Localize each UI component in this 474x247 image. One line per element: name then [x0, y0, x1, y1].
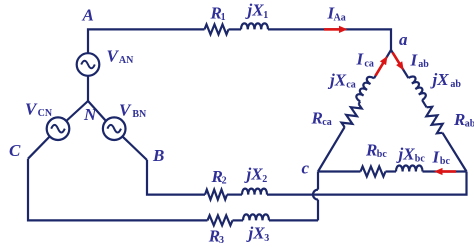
svg-text:BN: BN	[132, 109, 147, 120]
label I_ca	[356, 49, 374, 69]
source V_BN	[103, 117, 126, 140]
svg-text:A: A	[82, 6, 94, 25]
svg-text:1: 1	[221, 12, 226, 23]
wire a to jX_ab	[391, 50, 408, 78]
svg-text:V: V	[25, 100, 38, 119]
svg-text:ab: ab	[418, 59, 429, 70]
svg-text:jX: jX	[246, 224, 266, 243]
svg-text:CN: CN	[38, 108, 53, 119]
label R_bc	[365, 141, 387, 160]
wire jX2 to node b	[267, 172, 467, 195]
svg-text:jX: jX	[430, 70, 450, 89]
svg-text:ca: ca	[346, 79, 355, 90]
label jX3	[246, 224, 270, 244]
label R2	[211, 167, 227, 187]
current arrow I_ca	[376, 56, 388, 76]
svg-text:a: a	[399, 30, 408, 49]
wire jX_ca to R_ca	[359, 101, 361, 104]
svg-text:R: R	[311, 109, 323, 128]
label jX2	[244, 165, 268, 186]
wire R2 to jX2	[227, 194, 242, 196]
svg-text:c: c	[302, 159, 310, 178]
wire jX1 to node a corner	[268, 29, 391, 50]
svg-text:C: C	[9, 141, 21, 160]
hop over B wire	[313, 190, 318, 200]
label B	[152, 146, 164, 165]
svg-text:V: V	[119, 101, 132, 120]
wire c down to hop	[317, 172, 319, 190]
label a	[399, 30, 408, 49]
wire V_CN to corner C	[28, 136, 50, 158]
inductor jX_bc	[396, 166, 423, 172]
label R1	[210, 3, 226, 23]
label V_CN	[25, 100, 53, 120]
wire jX3 to c branch corner	[269, 219, 318, 221]
svg-text:R: R	[453, 110, 465, 129]
wire corner C down and to R3	[28, 159, 208, 221]
svg-text:3: 3	[264, 233, 269, 244]
inductor jX2	[242, 189, 267, 195]
label jX_ca	[327, 70, 356, 90]
wire V_BN to corner B	[122, 136, 147, 160]
svg-text:ca: ca	[322, 117, 331, 128]
svg-text:bc: bc	[440, 156, 451, 167]
wire R_ca to c	[318, 127, 345, 171]
label jX_ab	[430, 70, 462, 90]
current arrow I_ab	[393, 53, 404, 71]
resistor R_bc	[361, 167, 386, 177]
svg-text:1: 1	[263, 10, 268, 21]
label R3	[208, 226, 224, 246]
wire jX_ab to R_ab	[422, 100, 427, 107]
label C	[9, 141, 21, 160]
current arrow I_Aa	[324, 26, 348, 33]
inductor jX_ab	[408, 76, 425, 100]
label V_BN	[119, 101, 147, 121]
svg-text:jX: jX	[245, 1, 265, 20]
label V_AN	[107, 47, 135, 67]
resistor R_ca	[342, 104, 362, 127]
source V_AN	[77, 53, 100, 76]
svg-text:bc: bc	[415, 153, 426, 164]
wire N to V_CN	[66, 101, 88, 121]
svg-text:2: 2	[222, 176, 227, 187]
svg-text:jX: jX	[244, 165, 264, 184]
wire R_bc to jX_bc	[386, 170, 397, 172]
label I_bc	[432, 148, 451, 168]
svg-text:ab: ab	[465, 119, 474, 130]
svg-text:2: 2	[262, 174, 267, 185]
current arrow I_bc	[434, 168, 456, 175]
label I_Aa	[327, 4, 346, 24]
wire a to jX_ca	[374, 50, 391, 78]
wire R3 to jX3	[233, 219, 244, 221]
resistor R2	[205, 190, 227, 200]
wire R_ab to b	[443, 133, 467, 172]
label jX_bc	[396, 144, 426, 164]
svg-text:jX: jX	[327, 70, 347, 89]
wire c to R_bc	[318, 170, 361, 172]
svg-text:ab: ab	[450, 79, 461, 90]
resistor R3	[208, 215, 233, 225]
svg-text:B: B	[152, 146, 164, 165]
resistor R1	[205, 24, 229, 34]
inductor jX_ca	[356, 77, 374, 102]
wire corner B down and to R2	[147, 160, 205, 195]
label N	[83, 105, 97, 124]
svg-text:jX: jX	[396, 144, 416, 163]
svg-text:bc: bc	[377, 149, 388, 160]
wire R1 to jX1	[229, 28, 242, 30]
label c	[302, 159, 310, 178]
wire N to V_BN	[88, 101, 106, 121]
inductor jX1	[241, 23, 268, 29]
label jX1	[245, 1, 269, 21]
label I_ab	[410, 50, 430, 70]
wire jX_bc to b	[423, 170, 467, 172]
label R_ca	[311, 109, 332, 129]
svg-text:3: 3	[219, 235, 224, 246]
wire A corner to R1	[88, 29, 205, 53]
source V_CN	[47, 117, 70, 140]
resistor R_ab	[426, 107, 442, 134]
node A label	[82, 6, 94, 25]
wire hop down to C-phase wire	[317, 200, 319, 221]
inductor jX3	[243, 214, 269, 220]
svg-text:V: V	[107, 47, 120, 66]
svg-text:AN: AN	[119, 55, 134, 66]
svg-text:Aa: Aa	[334, 12, 346, 23]
label R_ab	[453, 110, 474, 130]
wire V_AN to N	[87, 76, 89, 101]
svg-text:ca: ca	[364, 58, 373, 69]
svg-text:R: R	[365, 141, 377, 160]
